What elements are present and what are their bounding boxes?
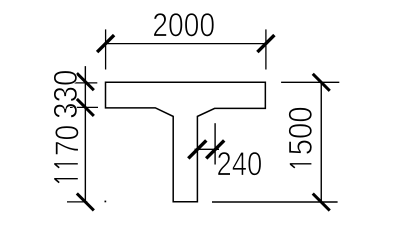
label 330 (rotated) — [54, 71, 78, 118]
dim 2000: dimension line — [105, 43, 268, 45]
left dim: stub at web bottom — [67, 201, 87, 203]
label 1170 (rotated) — [55, 126, 79, 155]
right dim (1500): bottom extension line — [212, 201, 338, 203]
label 1500 (rotated) — [289, 108, 313, 155]
left dim line (330/1170) — [84, 66, 86, 203]
left dim: tick at flange top — [77, 73, 94, 90]
dim 2000: extension line left — [105, 29, 107, 69]
right dim: tick bottom — [313, 194, 330, 211]
right dim: tick top — [313, 74, 330, 91]
dim 240: dimension line — [195, 148, 220, 150]
dim 2000: tick left — [97, 35, 114, 52]
dim 240: tick right — [206, 140, 224, 158]
dim 2000: extension line right — [265, 29, 267, 69]
left dim: dot remnant — [105, 201, 107, 203]
left dim: stub at flange bottom — [70, 106, 98, 108]
T-beam outline — [106, 82, 266, 202]
dim 2000: label — [154, 13, 214, 37]
left dim: tick at web bottom — [77, 193, 94, 210]
left dim: stub at flange top — [68, 82, 97, 84]
label 240 — [218, 152, 261, 176]
left dim: tick at flange bottom — [77, 99, 94, 116]
right dim (1500): dimension line — [320, 82, 322, 202]
dim 2000: tick right — [257, 35, 274, 52]
dim 240: extension line — [214, 123, 216, 164]
right dim (1500): top extension line — [281, 81, 339, 83]
dim 240: tick left — [188, 140, 206, 158]
